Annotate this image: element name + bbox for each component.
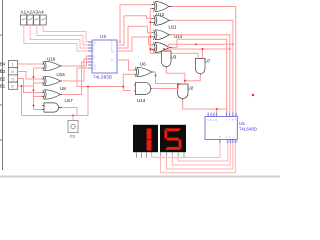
svg-text:U6: U6 — [140, 62, 146, 67]
svg-text:0: 0 — [12, 70, 14, 74]
wire A1 — [24, 25, 92, 51]
wire bus tap U14 in2 — [150, 36, 151, 38]
wire U16 out — [62, 56, 92, 66]
junction U7-U3 out — [184, 80, 186, 82]
wire U9 pin to line A — [77, 68, 123, 87]
svg-text:U8: U8 — [60, 86, 66, 91]
svg-text:U11: U11 — [169, 25, 177, 30]
svg-text:0: 0 — [12, 85, 14, 89]
wire seg d — [167, 143, 233, 169]
wire seg e — [161, 143, 236, 173]
and gate U2 vertical — [178, 84, 189, 100]
svg-text:U3: U3 — [171, 55, 177, 60]
junction y49 end — [229, 48, 231, 50]
seven segment display right — [160, 125, 186, 158]
wire bus tap U12 in2 — [150, 7, 151, 9]
xor gate U15 — [42, 76, 62, 85]
svg-text:U9: U9 — [100, 34, 106, 40]
svg-text:U16: U16 — [47, 57, 56, 62]
wire y49 line — [150, 48, 230, 50]
wire U14 out nest — [172, 35, 230, 113]
left display pins — [137, 152, 152, 158]
svg-text:B4: B4 — [0, 62, 6, 67]
wire U3 out — [166, 68, 185, 85]
junction U6 branch — [122, 86, 124, 88]
svg-text:74LS83D: 74LS83D — [93, 75, 113, 80]
wire mode bus top — [149, 8, 151, 53]
junction bus-U17 — [33, 105, 35, 107]
switch bank B — [9, 61, 18, 90]
junction U3 in1 — [163, 48, 165, 50]
wire g4 out nest — [172, 39, 227, 112]
junction U6 out — [155, 75, 157, 77]
wire S1 — [117, 5, 152, 42]
IC U9 74LS83D — [88, 40, 121, 73]
wire U7 out — [185, 75, 200, 81]
svg-text:A1A2A3A4: A1A2A3A4 — [21, 10, 45, 15]
top pins — [208, 113, 236, 117]
seven segment display left — [133, 125, 158, 158]
xor gate U11 — [152, 15, 173, 25]
junction U5 pin6 — [216, 108, 218, 110]
switch A4 — [40, 15, 46, 25]
junction U7 in2 — [202, 48, 204, 50]
junction B1 drop — [21, 85, 23, 87]
wire seg c — [172, 143, 230, 165]
wire y53.3 line — [150, 52, 198, 54]
wire bus tap U10 in2 — [150, 49, 151, 51]
svg-text:B3: B3 — [0, 69, 6, 74]
junction y44 mid — [195, 43, 197, 45]
wire U11 out nest — [172, 20, 233, 112]
IC U5 74LS48D — [205, 113, 237, 144]
right display pins — [161, 152, 184, 158]
digit 1 segments — [147, 128, 152, 139]
wires top nest to U5 — [172, 7, 236, 113]
svg-text:C: C — [207, 119, 209, 122]
wire U6 out to U2 — [154, 72, 181, 84]
junction C1 tap — [72, 115, 74, 117]
wire mode bus left — [33, 68, 35, 110]
junction y44 end — [232, 43, 234, 45]
wire S4 — [117, 37, 152, 51]
wire C1 net — [22, 115, 89, 117]
svg-text:U15: U15 — [57, 72, 66, 77]
wire S2 — [117, 16, 152, 45]
bottom pins — [220, 139, 235, 143]
wire U15 out — [62, 59, 92, 81]
svg-text:0: 0 — [12, 77, 14, 81]
wires A1-A4 to U9 — [24, 25, 92, 51]
sheet bottom edge — [0, 176, 280, 178]
switch lever marks A1-A4 — [22, 19, 45, 20]
wire branch to U13 in2 — [123, 87, 131, 91]
wire bus tap U17 in2 — [34, 109, 43, 111]
svg-text:U5: U5 — [239, 121, 245, 126]
wire B1 drop to C1 net — [21, 86, 23, 116]
svg-text:C1: C1 — [70, 134, 76, 139]
xor gate U14 — [152, 30, 173, 40]
junction bus-B2 — [33, 89, 35, 91]
wire A3 — [37, 25, 92, 45]
wire bus tap U11 in2 — [150, 21, 151, 23]
junction U13 out — [178, 83, 180, 85]
wire carry out to U6 — [117, 60, 134, 70]
wires bottom nest display to U5 — [152, 143, 236, 173]
svg-text:B2: B2 — [0, 77, 6, 82]
wire U8 out — [62, 62, 92, 95]
wire U13 out — [152, 84, 179, 89]
wire B3 — [18, 72, 43, 80]
digit 5 segments — [165, 128, 181, 131]
wire bus tap U8 in2 — [34, 96, 43, 98]
wire bus tap U16 in2 — [34, 67, 43, 69]
switch A3 — [34, 15, 40, 25]
switch A1 — [21, 15, 47, 25]
wire U12 out nest — [172, 7, 236, 113]
wire B1 — [18, 85, 34, 87]
svg-text:U2: U2 — [188, 86, 194, 91]
junction C1 riser — [87, 86, 89, 88]
wire A2 — [30, 25, 92, 48]
and gate U17 — [42, 103, 62, 112]
xor gate U6 — [134, 67, 154, 76]
wire B2 — [18, 79, 43, 93]
svg-text:74LS48D: 74LS48D — [239, 127, 257, 132]
svg-text:U13: U13 — [137, 98, 146, 103]
wire S3 — [117, 26, 152, 48]
switch A2 — [27, 15, 33, 25]
wire U2 out to U5 — [183, 100, 227, 113]
svg-text:1: 1 — [12, 63, 14, 67]
right pins — [117, 42, 121, 60]
wire U17 out — [62, 108, 77, 116]
left pins — [88, 42, 92, 68]
node stray dot — [252, 94, 254, 96]
junction bus-U11 — [149, 21, 151, 23]
svg-text:U7: U7 — [205, 59, 211, 64]
xor gate U10 — [152, 42, 173, 52]
indicator C1 — [68, 116, 78, 133]
junction bus-y49 — [149, 48, 151, 50]
and gate U13 — [134, 82, 153, 94]
svg-text:B1: B1 — [0, 84, 6, 89]
xor gate U16 — [42, 61, 62, 70]
wire B4 — [18, 63, 43, 65]
wires B to XOR gates — [18, 64, 135, 116]
wires gate outputs to U9 — [62, 56, 92, 116]
wire bus tap U15 in2 — [34, 82, 43, 84]
wires middle cluster — [152, 39, 233, 112]
wire seg b — [178, 143, 228, 161]
junction bus-B3 — [33, 76, 35, 78]
wire tens digit — [152, 143, 220, 157]
xor gate U8 — [42, 90, 62, 99]
svg-text:U17: U17 — [65, 98, 74, 103]
xor gate U12 — [152, 2, 173, 12]
and gate U7 vertical — [196, 58, 206, 75]
wire riser x88 — [87, 87, 89, 116]
and gate U3 vertical — [162, 51, 172, 68]
wires U9 sums to top xors — [117, 5, 230, 70]
wire U7 inputs — [197, 53, 199, 58]
svg-text:D: D — [216, 119, 218, 122]
switch values B — [12, 63, 14, 89]
sheet border — [0, 0, 3, 170]
connector B labels — [0, 62, 6, 89]
wire A4 — [43, 25, 92, 42]
wire U3 inputs — [163, 49, 165, 51]
wire branch to U6 in2 — [123, 74, 134, 86]
junction bus-U14 — [149, 36, 151, 38]
